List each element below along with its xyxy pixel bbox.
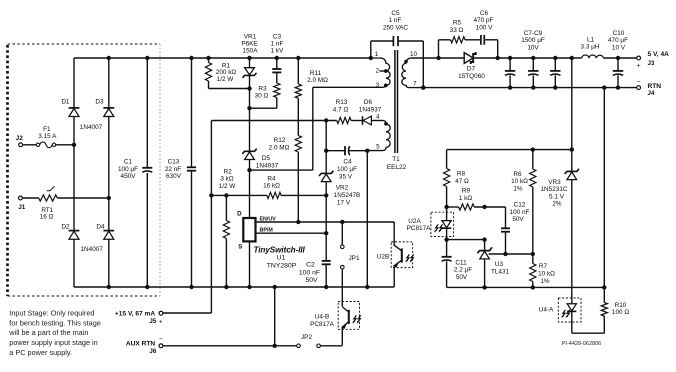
wire: R1 bottom to VR1 node [209,86,252,90]
capacitor C2 [322,261,331,287]
svg-text:D4: D4 [96,223,105,230]
TVS VR1 [243,58,257,108]
svg-text:VR1: VR1 [244,33,257,40]
wire: J6 to JP2 [163,344,297,348]
label D7 15TQ060 [458,65,485,80]
terminal J4 return [637,86,641,90]
diode D7 schottky [464,52,476,64]
svg-text:1 nF: 1 nF [389,17,402,24]
shunt regulator U3 TL431 [478,240,492,288]
label U3 TL431 [491,261,510,276]
diode D3 [103,107,114,109]
capacitor C8 [528,58,538,88]
optocoupler U4-A LED [558,298,581,333]
label R8 47 ohm [455,171,469,185]
svg-text:C1: C1 [124,158,133,165]
label C3 1nF 1kV [271,33,285,54]
label R3 30 ohm [255,86,269,100]
svg-text:4: 4 [376,114,380,121]
svg-text:3.3 μH: 3.3 μH [581,44,600,51]
svg-text:50V: 50V [456,274,468,281]
wire: secondary ground rail [447,285,607,289]
svg-text:U2B: U2B [377,253,389,260]
label R13 4.7 ohm [333,99,349,113]
svg-text:2.0 MΩ: 2.0 MΩ [269,144,290,151]
svg-text:100 nF: 100 nF [510,209,530,216]
wire: VR2 to BP/M and C2 [324,195,328,261]
label C4 100uF 35V [337,159,357,181]
label T1 EEL22 [387,156,407,171]
svg-text:16 kΩ: 16 kΩ [263,183,280,190]
svg-text:EEL22: EEL22 [387,164,407,171]
label R7 10k 1% [538,263,555,285]
svg-text:100 μF: 100 μF [337,166,357,173]
terminal J2 [19,143,23,147]
resistor R10 [601,287,607,333]
label VR2 1N5247B 17V [334,185,361,207]
wire: primary ground rail [74,286,394,288]
label VR1 P6KE 150A [241,33,258,54]
transformer T1 core [395,50,398,153]
fuse F1 [36,142,55,148]
wire: drain pin [249,170,251,218]
label C10 470uF 10V [608,30,628,52]
svg-text:4.7 Ω: 4.7 Ω [333,106,349,113]
svg-text:power supply input stage in: power supply input stage in [9,338,97,347]
svg-text:R5: R5 [453,20,462,27]
diode D6 [351,116,386,125]
capacitor C7 [505,58,515,88]
transformer T1 secondary winding [402,58,411,88]
svg-text:1500 μF: 1500 μF [521,37,545,44]
label C12 100nF 50V [510,201,530,223]
svg-text:J2: J2 [16,135,24,142]
label R1 200k 1/2W [216,62,237,83]
wire: clamp bottom node [247,106,276,110]
diode D5 [242,108,256,170]
svg-text:JP1: JP1 [348,255,359,262]
svg-text:100 nF: 100 nF [299,269,320,276]
svg-text:2.2 μF: 2.2 μF [454,267,472,274]
svg-text:C11: C11 [455,259,467,266]
svg-text:P6KE: P6KE [241,40,257,47]
svg-text:33 Ω: 33 Ω [450,27,464,34]
svg-text:RTN: RTN [648,83,662,90]
svg-text:100 μF: 100 μF [118,166,138,173]
svg-text:J4: J4 [648,90,655,97]
wire: R8 bottom node [444,205,448,209]
resistor R3 [274,83,280,108]
svg-text:3 kΩ: 3 kΩ [220,176,234,183]
label J6 - [149,336,163,355]
svg-text:TL431: TL431 [491,268,510,275]
svg-text:1 kV: 1 kV [271,47,285,54]
wire: J2 to fuse to bridge node [23,143,77,147]
svg-text:for bench testing. This stage: for bench testing. This stage [9,318,101,327]
svg-text:R2: R2 [224,169,233,176]
svg-text:VR2: VR2 [336,185,349,192]
svg-text:PC817A: PC817A [310,321,335,328]
svg-text:22 nF: 22 nF [165,166,181,173]
svg-text:L1: L1 [587,36,595,43]
pin 3 node [384,84,388,88]
svg-text:R8: R8 [457,171,466,178]
wire: feedback sub-rail [447,147,574,151]
svg-text:TinySwitch-III: TinySwitch-III [254,246,306,255]
pin 4 node [384,122,388,126]
svg-text:R12: R12 [274,137,286,144]
wire: U4-A cathode to R10 [572,332,605,334]
svg-text:D2: D2 [61,223,70,230]
wire: EN/UV pin [256,220,395,224]
svg-text:1N5231C: 1N5231C [540,186,567,193]
svg-text:will be a part of the main: will be a part of the main [8,328,88,337]
label C1 100uF 450V [118,158,138,180]
svg-text:5.1 V: 5.1 V [549,193,565,200]
label C6 470pF 100V [474,10,494,31]
label R11 2.0M [307,70,328,84]
input stage dashed border box [8,44,161,296]
label U2A PC817A (for U2A half) [407,218,432,232]
transformer T1 primary winding [371,58,390,87]
svg-text:1N4007: 1N4007 [80,124,103,131]
capacitor C11 [442,240,452,288]
svg-text:R9: R9 [462,188,471,195]
svg-text:50V: 50V [512,216,524,223]
svg-text:5: 5 [376,144,380,151]
resistor R2 [223,195,229,287]
capacitor C4 [326,146,369,155]
capacitor C12 [501,207,510,254]
svg-text:C6: C6 [480,10,489,17]
svg-text:17 V: 17 V [337,199,351,206]
svg-text:50V: 50V [305,277,318,284]
svg-text:JP2: JP2 [301,334,312,341]
label U4-B PC817A [310,313,335,328]
svg-text:VR3: VR3 [548,179,561,186]
svg-text:J1: J1 [18,204,26,211]
svg-text:1/2 W: 1/2 W [217,76,235,83]
svg-text:+: + [637,62,641,69]
zener VR3 [565,150,579,304]
resistor R8 [444,150,450,207]
label R4 16k [263,175,280,189]
svg-text:150A: 150A [243,47,259,54]
label C13 22nF 630V [165,158,182,180]
terminal J5 +15V output [159,311,163,315]
jumper JP1 [341,222,345,306]
svg-text:470 pF: 470 pF [474,17,494,24]
svg-text:U3: U3 [495,261,504,268]
label C7-C9 1500uF 10V [521,30,545,52]
resistor R1 [205,58,211,89]
wire: BP/M pin [256,232,327,234]
label C5 1nF 250VAC [383,10,408,31]
svg-text:F1: F1 [43,126,51,133]
optocoupler U2B phototransistor [391,222,413,287]
svg-text:100 Ω: 100 Ω [612,309,629,316]
node: top rail junctions [107,56,373,60]
label L1 3.3uH [581,36,600,50]
svg-text:250 VAC: 250 VAC [383,24,408,31]
label C11 2.2uF 50V [454,259,472,281]
capacitor C9 [550,58,560,88]
svg-text:2%: 2% [552,201,562,208]
svg-text:1N4937: 1N4937 [359,106,382,113]
svg-text:T1: T1 [392,156,400,163]
svg-text:D5: D5 [262,155,271,162]
terminal J3 5V output [637,56,641,60]
wire: aux return to primary ground [274,287,276,346]
snubber R5/C6 branch [439,40,498,58]
label R10 100 ohm [612,302,629,316]
svg-text:R7: R7 [539,263,548,270]
svg-text:1N4937: 1N4937 [256,162,279,169]
svg-text:J6: J6 [149,348,156,355]
wire: bias rail to node B [211,118,336,122]
terminal J6 aux return [159,344,163,348]
svg-text:C4: C4 [343,159,352,166]
svg-text:450V: 450V [121,173,137,180]
svg-text:R6: R6 [513,171,522,178]
svg-text:EN/UV: EN/UV [260,217,277,223]
svg-text:5 V, 4A: 5 V, 4A [648,51,670,58]
wire: +5V sense drop [571,58,573,150]
svg-text:1%: 1% [513,185,523,192]
thermistor RT1 [39,186,58,201]
resistor R7 [530,254,536,287]
svg-text:D6: D6 [364,99,373,106]
svg-text:35 V: 35 V [339,173,353,180]
svg-text:1N4007: 1N4007 [81,246,104,253]
label F1 3.15 A [38,126,57,140]
svg-text:J5: J5 [149,318,156,325]
svg-text:R13: R13 [336,99,348,106]
resistor R4 [267,192,281,198]
wire: pin5 return to ground [367,151,383,287]
label D6 1N4937 [359,99,382,113]
zener VR2 [319,171,333,196]
capacitor C1 [142,58,152,287]
resistor R13 [337,117,351,123]
svg-text:100 V: 100 V [476,24,493,31]
svg-text:10 V: 10 V [612,45,626,52]
capacitor C5 branch [371,36,426,90]
diode D4 [103,230,114,232]
svg-text:2: 2 [376,67,380,74]
svg-text:C3: C3 [273,33,282,40]
label R5 33 ohm [450,20,464,34]
svg-text:BP/M: BP/M [260,228,274,234]
svg-text:PI-4428-062806: PI-4428-062806 [562,341,601,347]
wire: J1 to RT1 to bridge node [22,196,111,200]
wire: DC bus top rail [74,57,371,59]
svg-text:+: + [159,318,163,325]
svg-text:C5: C5 [391,10,400,17]
svg-text:AUX RTN: AUX RTN [126,340,156,347]
optocoupler U2A LED [431,207,454,240]
svg-text:C10: C10 [613,30,625,37]
svg-text:TNY280P: TNY280P [267,263,297,270]
resistor R9 [447,204,506,210]
diode D1 [69,107,80,109]
resistor R11 [295,58,301,136]
svg-text:R10: R10 [615,302,627,309]
svg-text:630V: 630V [166,173,182,180]
svg-text:C2: C2 [306,262,315,269]
resistor R6 [530,150,536,254]
svg-text:47 Ω: 47 Ω [455,178,469,185]
svg-text:S: S [238,244,242,251]
svg-text:PC817A: PC817A [407,225,432,232]
wire: source pin to ground [249,241,251,287]
svg-text:U4-A: U4-A [539,306,554,313]
wire: D3/D4 column [108,58,110,287]
label J4 - [637,79,655,97]
label J3 + [637,60,655,70]
pin 2 stub and node [380,69,388,73]
label R12 2.0M [269,137,290,151]
wire: U2A cathode to U3 cathode [444,237,486,241]
svg-text:1%: 1% [540,278,550,285]
svg-text:R4: R4 [267,175,276,182]
svg-text:Input Stage: Only required: Input Stage: Only required [9,308,94,317]
label R9 1k [459,188,473,202]
capacitor C13 [187,58,196,287]
resistor R12 [295,136,301,223]
svg-text:470 μF: 470 μF [608,37,628,44]
svg-text:10V: 10V [527,45,539,52]
wire: D1/D2 column [73,58,75,287]
svg-text:+15 V, 67 mA: +15 V, 67 mA [115,311,156,318]
svg-text:D: D [237,210,242,217]
label RT1 16 ohm [40,207,54,221]
label C2 100nF 50V [299,262,320,285]
optocoupler U4-B phototransistor [338,302,360,346]
svg-text:D7: D7 [467,65,476,72]
secondary phase dot [404,60,408,64]
svg-text:R3: R3 [258,86,267,93]
wire: secondary RTN rail [409,85,637,89]
svg-text:1 nF: 1 nF [271,40,284,47]
jumper JP2 [297,344,343,348]
wire: R2/R4/VR2 row [211,193,328,197]
svg-text:15TQ060: 15TQ060 [458,73,485,80]
wire: node B down to J5 (+15V line) [163,121,214,314]
svg-text:C12: C12 [514,201,526,208]
note text: input stage description [8,308,101,357]
wire: bias node down to C4/VR2 [324,121,328,174]
svg-text:16 Ω: 16 Ω [40,213,54,220]
svg-text:7: 7 [413,81,417,88]
svg-text:D1: D1 [61,99,70,106]
svg-text:1: 1 [375,51,379,58]
svg-text:a PC power supply.: a PC power supply. [9,348,72,357]
svg-text:D3: D3 [95,99,104,106]
svg-text:J3: J3 [648,60,655,67]
wire: +5V output rail [411,56,637,60]
wire: U3 ref to divider [489,252,535,256]
svg-text:30 Ω: 30 Ω [255,93,269,100]
svg-text:10: 10 [410,51,417,58]
transformer T1 bias winding [383,124,390,151]
svg-text:U2A: U2A [408,218,421,225]
svg-text:10 kΩ: 10 kΩ [511,178,528,185]
resistor R5 [451,37,466,43]
svg-text:1 kΩ: 1 kΩ [459,195,473,202]
capacitor C3 [272,58,281,83]
svg-text:C13: C13 [168,158,180,165]
label R2 3k 1/2W [219,169,237,190]
svg-text:1/2 W: 1/2 W [219,183,237,190]
wire: RTN to secondary ground return [603,88,605,288]
svg-text:U4-B: U4-B [315,313,330,320]
diode D2 [69,230,80,232]
svg-text:3.15 A: 3.15 A [38,133,57,140]
inductor L1 [582,55,604,58]
terminal J1 [19,196,23,200]
svg-text:3: 3 [376,82,380,89]
capacitor C10 [613,58,623,88]
svg-text:−: − [159,336,163,343]
label R6 10k 1% [511,171,528,192]
svg-text:U1: U1 [277,254,286,261]
svg-text:C7-C9: C7-C9 [524,30,543,37]
capacitor C6 [481,35,484,45]
svg-text:2.0 MΩ: 2.0 MΩ [307,77,328,84]
wire: drain node to transformer pin 3 [247,87,382,172]
svg-text:10 kΩ: 10 kΩ [538,270,555,277]
svg-text:−: − [637,79,641,86]
label D5 1N4937 [256,155,279,169]
IC U1 TNY280P body [243,218,255,241]
label J5 + [149,318,162,326]
label VR3 1N5231C 5.1V 2% [540,179,567,208]
node: primary ground rail junctions [107,285,370,289]
svg-text:1N5247B: 1N5247B [334,192,361,199]
